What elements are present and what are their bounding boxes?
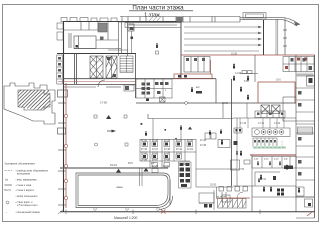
toilet cluster upper center <box>136 79 172 98</box>
stairwell block B <box>106 56 117 78</box>
small boxes below y168 wall end <box>152 169 158 173</box>
small mark <box>100 37 104 41</box>
svg-text:- знак, маркировка: - знак, маркировка <box>15 179 37 182</box>
cluster feeder walls <box>153 119 216 140</box>
stalls row below basins <box>253 138 277 147</box>
green dash bottom center <box>217 196 227 198</box>
svg-text:17-11: 17-11 <box>141 140 147 142</box>
hall small square2 <box>125 143 128 146</box>
hall arrow symbol <box>107 130 113 132</box>
red vertical x210 <box>210 60 212 74</box>
svg-text:17-40: 17-40 <box>240 122 247 125</box>
radiator hatch right <box>298 127 313 135</box>
dark grid symbol <box>277 189 284 196</box>
svg-text:17-27: 17-27 <box>152 160 159 162</box>
parking right wall <box>263 20 265 55</box>
svg-text:Условные обозначения: Условные обозначения <box>5 162 36 166</box>
left outer wall <box>63 21 65 212</box>
red room boundary right center <box>258 82 295 103</box>
mid-left dividing wall y53 <box>57 53 136 55</box>
right column fixtures <box>291 58 313 176</box>
bottom wall axis slash <box>58 209 64 214</box>
right lower walls <box>233 186 314 212</box>
svg-text:17-24: 17-24 <box>164 153 171 155</box>
person near wall <box>247 76 249 81</box>
big room upper-center symbols <box>156 43 158 48</box>
top rooms row <box>118 17 240 23</box>
cluster small boxes <box>142 142 193 168</box>
left wall pilaster <box>58 90 68 97</box>
stair lobby wall <box>75 53 77 84</box>
svg-text:17-22: 17-22 <box>141 153 148 155</box>
hall dividing double wall x140 <box>140 168 143 186</box>
stairwell X-hatch block <box>90 56 103 78</box>
big room top wall y118.5 <box>148 114 233 119</box>
boxes below corridor right <box>124 85 134 91</box>
left wall pilaster2 <box>58 128 66 134</box>
svg-text:17-06: 17-06 <box>100 101 107 105</box>
svg-text:Н=2,5: Н=2,5 <box>4 189 11 192</box>
wall y168 left <box>60 167 168 169</box>
svg-text:17-21: 17-21 <box>187 149 194 151</box>
cluster people symbols <box>145 129 222 139</box>
svg-text:17-17: 17-17 <box>152 149 159 151</box>
pool bottom circles <box>94 208 160 211</box>
green evacuation band <box>253 146 286 149</box>
bottom right room box <box>296 187 313 207</box>
hall triangle symbol <box>106 115 111 119</box>
boxes row above y118 <box>255 111 285 118</box>
svg-text:20.95: 20.95 <box>210 184 217 187</box>
bottom outer wall <box>60 211 315 213</box>
svg-text:чаша: чаша <box>116 186 123 189</box>
walls right center <box>223 97 314 121</box>
dark top box <box>177 17 183 22</box>
upper-left rooms right part <box>96 21 134 56</box>
columns row bottom <box>219 187 248 192</box>
red evacuation vertical line <box>65 83 67 208</box>
center room symbols <box>191 87 202 93</box>
svg-text:17-42: 17-42 <box>274 122 281 125</box>
bottom left stalls <box>218 199 247 209</box>
svg-text:17-25: 17-25 <box>176 153 183 155</box>
axis ticks on left wall <box>58 103 66 205</box>
right column outer wall <box>314 55 316 218</box>
notch circle on wall y103 <box>185 102 188 105</box>
svg-text:17-12: 17-12 <box>152 140 159 142</box>
dark car blob <box>284 166 293 170</box>
svg-text:17-31: 17-31 <box>163 166 170 168</box>
svg-text:возгорания: возгорания <box>17 173 31 176</box>
svg-text:8.50: 8.50 <box>244 80 249 83</box>
wall y103 <box>136 102 296 104</box>
canopy window box <box>243 13 266 20</box>
top outer wall <box>63 21 181 23</box>
svg-text:17-23: 17-23 <box>152 153 159 155</box>
svg-text:4-03: 4-03 <box>274 159 279 161</box>
corridor red line <box>58 81 136 83</box>
key plan hatch lines <box>20 90 51 109</box>
wall y73.5 right of center <box>240 71 258 74</box>
cluster fixtures dark <box>143 141 238 158</box>
svg-text:15.08: 15.08 <box>231 53 238 56</box>
left facade small boxes <box>57 23 63 40</box>
vertical x233 <box>231 79 233 186</box>
parking long lines <box>184 27 259 51</box>
svg-text:17-32: 17-32 <box>200 140 207 142</box>
svg-text:17-14: 17-14 <box>176 140 183 142</box>
canopy tip <box>294 22 300 26</box>
right column corridor wall <box>295 55 297 212</box>
svg-text:45.5: 45.5 <box>128 162 133 165</box>
svg-text:17-16: 17-16 <box>141 149 148 151</box>
box pair upper left of basins <box>234 128 242 133</box>
red line nodes <box>64 114 67 199</box>
cluster tiny labels <box>141 140 207 168</box>
svg-text:17-41: 17-41 <box>258 122 265 125</box>
staircase treads <box>120 56 133 73</box>
svg-text:15.60: 15.60 <box>222 102 229 105</box>
svg-text:17-13: 17-13 <box>164 140 171 142</box>
svg-text:1м: 1м <box>5 179 8 182</box>
dark shaded box room <box>98 23 107 32</box>
svg-text:17-29: 17-29 <box>152 166 159 168</box>
small texts right area <box>222 53 288 182</box>
svg-text:17-19: 17-19 <box>176 149 183 151</box>
upper-left rooms <box>64 22 121 49</box>
row dividers below y118 right <box>240 118 284 128</box>
L wall room below <box>252 155 280 186</box>
svg-text:17-51: 17-51 <box>260 178 267 181</box>
title: План части этажа <box>129 5 193 19</box>
hall small circle <box>95 143 98 146</box>
top right canopy edge <box>240 17 300 26</box>
X-box below toilets <box>160 97 166 102</box>
narrow band below top row <box>125 23 181 28</box>
svg-text:14.08: 14.08 <box>235 72 242 75</box>
left room marks <box>236 151 238 155</box>
wall right of stairs <box>135 53 137 98</box>
shaft dark mark <box>130 27 134 30</box>
red line y155 <box>250 154 296 156</box>
vertical x255 upper <box>254 55 256 82</box>
red X mark at pool bottom <box>161 210 174 214</box>
big room symbols above cluster <box>141 123 193 131</box>
vertical x247 <box>246 103 248 118</box>
svg-text:17-26: 17-26 <box>141 160 148 162</box>
svg-text:17-50: 17-50 <box>238 168 245 171</box>
svg-text:4-01: 4-01 <box>254 159 259 161</box>
hall right wall <box>169 180 171 205</box>
red room outline top center <box>174 74 212 79</box>
dimension ticks bottom wall <box>66 210 260 215</box>
corridor lower wall segments with door arcs <box>63 80 121 87</box>
room block below pool right <box>196 187 233 210</box>
scattered people symbols main plan <box>221 64 288 180</box>
svg-text:17-18: 17-18 <box>164 149 171 151</box>
triangle below wall <box>116 169 121 173</box>
key plan hatched building footprint <box>18 90 50 110</box>
central dense cluster walls <box>140 118 240 187</box>
glass wall x276 <box>276 19 278 55</box>
pool rounded rectangle <box>76 173 173 210</box>
rooms row below y55 <box>184 57 210 73</box>
bottom people and marks <box>263 187 300 193</box>
svg-text:- письменный размер: - письменный размер <box>15 211 41 214</box>
svg-text:вкл: вкл <box>196 86 200 89</box>
red dividing line y55 <box>181 54 315 56</box>
svg-text:17-33: 17-33 <box>200 145 207 147</box>
verticals bottom center rooms <box>217 187 227 199</box>
parking arrows <box>258 26 262 46</box>
svg-text:17-28: 17-28 <box>164 160 171 162</box>
box with mark right upper <box>307 76 315 86</box>
svg-text:- стена и ворота: - стена и ворота <box>15 189 34 192</box>
svg-text:- стена и зона: - стена и зона <box>15 184 32 187</box>
green vertical drops from basins <box>258 141 282 147</box>
svg-text:15-31: 15-31 <box>110 163 117 167</box>
cluster bottom dark strip <box>180 163 191 187</box>
hall small squares <box>94 115 127 118</box>
door arc near stalls <box>237 192 243 198</box>
hatched top box <box>148 17 161 23</box>
right column room dividers <box>296 75 314 197</box>
marks inside red room <box>178 75 187 78</box>
right bottom extra wall <box>296 217 315 219</box>
key plan site outline <box>4 83 55 124</box>
red line above stalls <box>216 197 250 199</box>
svg-text:- запор помещения: - запор помещения <box>15 195 38 198</box>
wall x181 <box>180 21 182 79</box>
washbasin band <box>252 128 290 137</box>
left cells column <box>57 55 62 84</box>
legend rows <box>4 170 48 215</box>
svg-text:4-02: 4-02 <box>264 159 269 161</box>
svg-text:17-15: 17-15 <box>187 140 194 142</box>
svg-text:2,5 которые в мет: 2,5 которые в мет <box>17 204 38 207</box>
wall x131 lower <box>131 31 133 53</box>
wall y118 <box>233 117 296 119</box>
red diagonal mark bottom right <box>307 212 312 216</box>
vertical x216 <box>215 79 217 103</box>
svg-text:→: → <box>5 211 8 214</box>
corridor walls <box>63 79 216 85</box>
window wall right upper <box>283 18 287 55</box>
triangle on wall y168 right <box>144 168 149 172</box>
lower rooms row right block <box>252 157 296 169</box>
right rooms block below y55 <box>283 57 314 72</box>
svg-text:Масштаб 1:200: Масштаб 1:200 <box>114 216 137 220</box>
small white box left of rooms row <box>244 160 250 164</box>
svg-text:19.6: 19.6 <box>276 79 281 82</box>
elevator shafts <box>261 105 280 114</box>
top window boxes left <box>61 18 117 22</box>
vertical hatch band below right block <box>298 73 312 78</box>
